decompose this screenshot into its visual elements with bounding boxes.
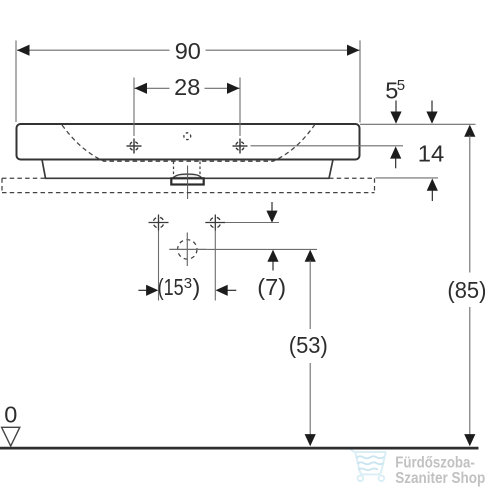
drain dome (173, 174, 201, 178)
dimension 5^5: lower arrow (up) (390, 146, 401, 158)
washbasin main body (rim slab) (17, 124, 360, 160)
floor line (0, 447, 479, 450)
svg-text:0: 0 (4, 402, 17, 428)
waste outlet circle (dashed) with centre cross (169, 233, 207, 267)
dimension 14: lower arrow (up) (427, 179, 438, 191)
svg-text:(53): (53) (289, 332, 328, 358)
tap hole right (cross + dashed circle) (233, 139, 248, 154)
datum triangle (2, 427, 20, 446)
svg-text:5: 5 (397, 77, 405, 94)
dimension (7): upper arrow (down) (271, 202, 273, 212)
drain flange rectangle (171, 178, 203, 184)
svg-text:3: 3 (184, 275, 192, 292)
washbasin plinth (lower body, trapezoid) (42, 160, 333, 179)
tap hole left (cross + dashed circle) (127, 139, 142, 154)
dimension 5^5: upper arrow (down) (395, 101, 397, 114)
svg-text:Szaniter Shop: Szaniter Shop (395, 470, 485, 487)
svg-text:): ) (193, 274, 201, 300)
dimension 14: upper arrow (down) (431, 101, 433, 114)
fixing hole right (cross + dashed circle) (205, 215, 225, 231)
dimension 90: arrowheads (17, 45, 30, 56)
dimension 90: dimension line (17, 49, 170, 51)
fixing hole extension line right (214, 231, 216, 301)
watermark shop-cart icon (351, 449, 386, 481)
overflow knockout (small dashed circle) (184, 133, 191, 140)
svg-text:90: 90 (175, 38, 201, 64)
dimension (15^3): right arrow (points left) (216, 285, 228, 296)
fixing hole axis reference line (225, 222, 279, 224)
dimension 90: extension lines (15, 40, 17, 122)
dimension (53): vertical line with arrows (305, 250, 316, 262)
dimension (7): lower arrow (up) (267, 250, 278, 262)
svg-text:(7): (7) (257, 274, 286, 300)
dimension (85): vertical line with arrows (464, 125, 475, 137)
svg-text:28: 28 (174, 74, 200, 100)
svg-text:(15: (15 (158, 274, 184, 300)
dimension 28: extension lines (133, 78, 135, 137)
drain centre line (187, 166, 189, 200)
extended rim top reference line (360, 123, 476, 125)
fixing hole left (cross + dashed circle) (149, 215, 169, 231)
svg-text:14: 14 (418, 140, 445, 166)
ceramic bottom reference line (376, 177, 439, 179)
tap hole axis reference line (251, 145, 404, 147)
hidden bowl contour (dashed) (62, 125, 315, 161)
dimension 28: dimension line (135, 87, 170, 89)
hidden drain hole edges (dashed verticals) (173, 162, 175, 179)
svg-text:(85): (85) (447, 277, 486, 303)
hidden installation box (dashed rectangle) (2, 178, 375, 192)
fixing hole extension line left (158, 231, 160, 301)
dimension 28: arrowheads (135, 83, 148, 94)
waste outlet axis reference line (207, 248, 317, 250)
dimension (15^3): left arrow (points right) (138, 289, 147, 291)
